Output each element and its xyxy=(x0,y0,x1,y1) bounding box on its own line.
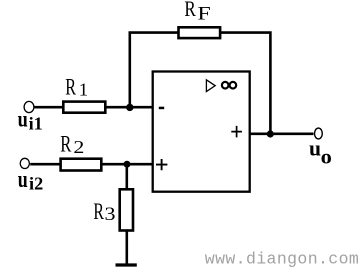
label ui2 xyxy=(18,165,43,193)
svg-text:i1: i1 xyxy=(29,114,43,134)
op-amp inverting input minus sign xyxy=(159,107,164,110)
label R2 xyxy=(60,132,84,158)
wire feedback left leg xyxy=(130,33,178,107)
wire junction to R3 xyxy=(126,164,129,190)
svg-text:www.diangon.com: www.diangon.com xyxy=(205,250,359,269)
label R3 xyxy=(93,199,115,225)
op-amp gain symbol triangle xyxy=(206,80,215,92)
wire feedback right leg xyxy=(221,33,271,134)
op-amp non-inverting input plus sign xyxy=(156,159,167,170)
label uo xyxy=(309,135,332,168)
svg-text:3: 3 xyxy=(105,203,116,225)
node A (inverting input junction) xyxy=(126,104,133,111)
node B (output junction) xyxy=(267,130,274,137)
ground xyxy=(116,263,137,266)
wire R2 to op-amp non-inverting input xyxy=(101,163,152,166)
svg-text:R: R xyxy=(65,75,76,100)
resistor R2 xyxy=(61,159,102,171)
terminal ui1 xyxy=(24,101,34,112)
node C (non-inverting input junction) xyxy=(124,161,131,168)
resistor RF xyxy=(179,27,221,38)
wire R3 to ground xyxy=(126,231,129,265)
svg-text:u: u xyxy=(18,105,29,132)
svg-text:R: R xyxy=(184,0,196,22)
label RF xyxy=(184,0,210,24)
op-amp U1 body xyxy=(153,72,250,192)
svg-text:F: F xyxy=(197,2,210,23)
svg-text:o: o xyxy=(321,145,332,168)
wire ui2 to R2 xyxy=(30,163,61,166)
svg-text:R: R xyxy=(93,199,104,225)
wire op-amp output xyxy=(250,133,314,136)
svg-text:u: u xyxy=(309,135,321,160)
svg-text:R: R xyxy=(60,132,71,157)
resistor R1 xyxy=(63,102,105,113)
terminal ui2 xyxy=(20,158,29,168)
wire R1 to op-amp inverting input xyxy=(105,106,152,109)
resistor R3 xyxy=(120,189,133,230)
label ui1 xyxy=(18,105,43,133)
svg-text:2: 2 xyxy=(73,138,84,158)
wire ui1 to R1 xyxy=(35,106,64,109)
op-amp output plus sign xyxy=(231,126,242,137)
svg-text:i2: i2 xyxy=(29,174,43,194)
svg-text:1: 1 xyxy=(79,80,88,99)
terminal uo xyxy=(315,128,323,139)
op-amp infinity symbol xyxy=(222,82,236,89)
label R1 xyxy=(65,75,88,100)
svg-text:u: u xyxy=(18,165,28,192)
